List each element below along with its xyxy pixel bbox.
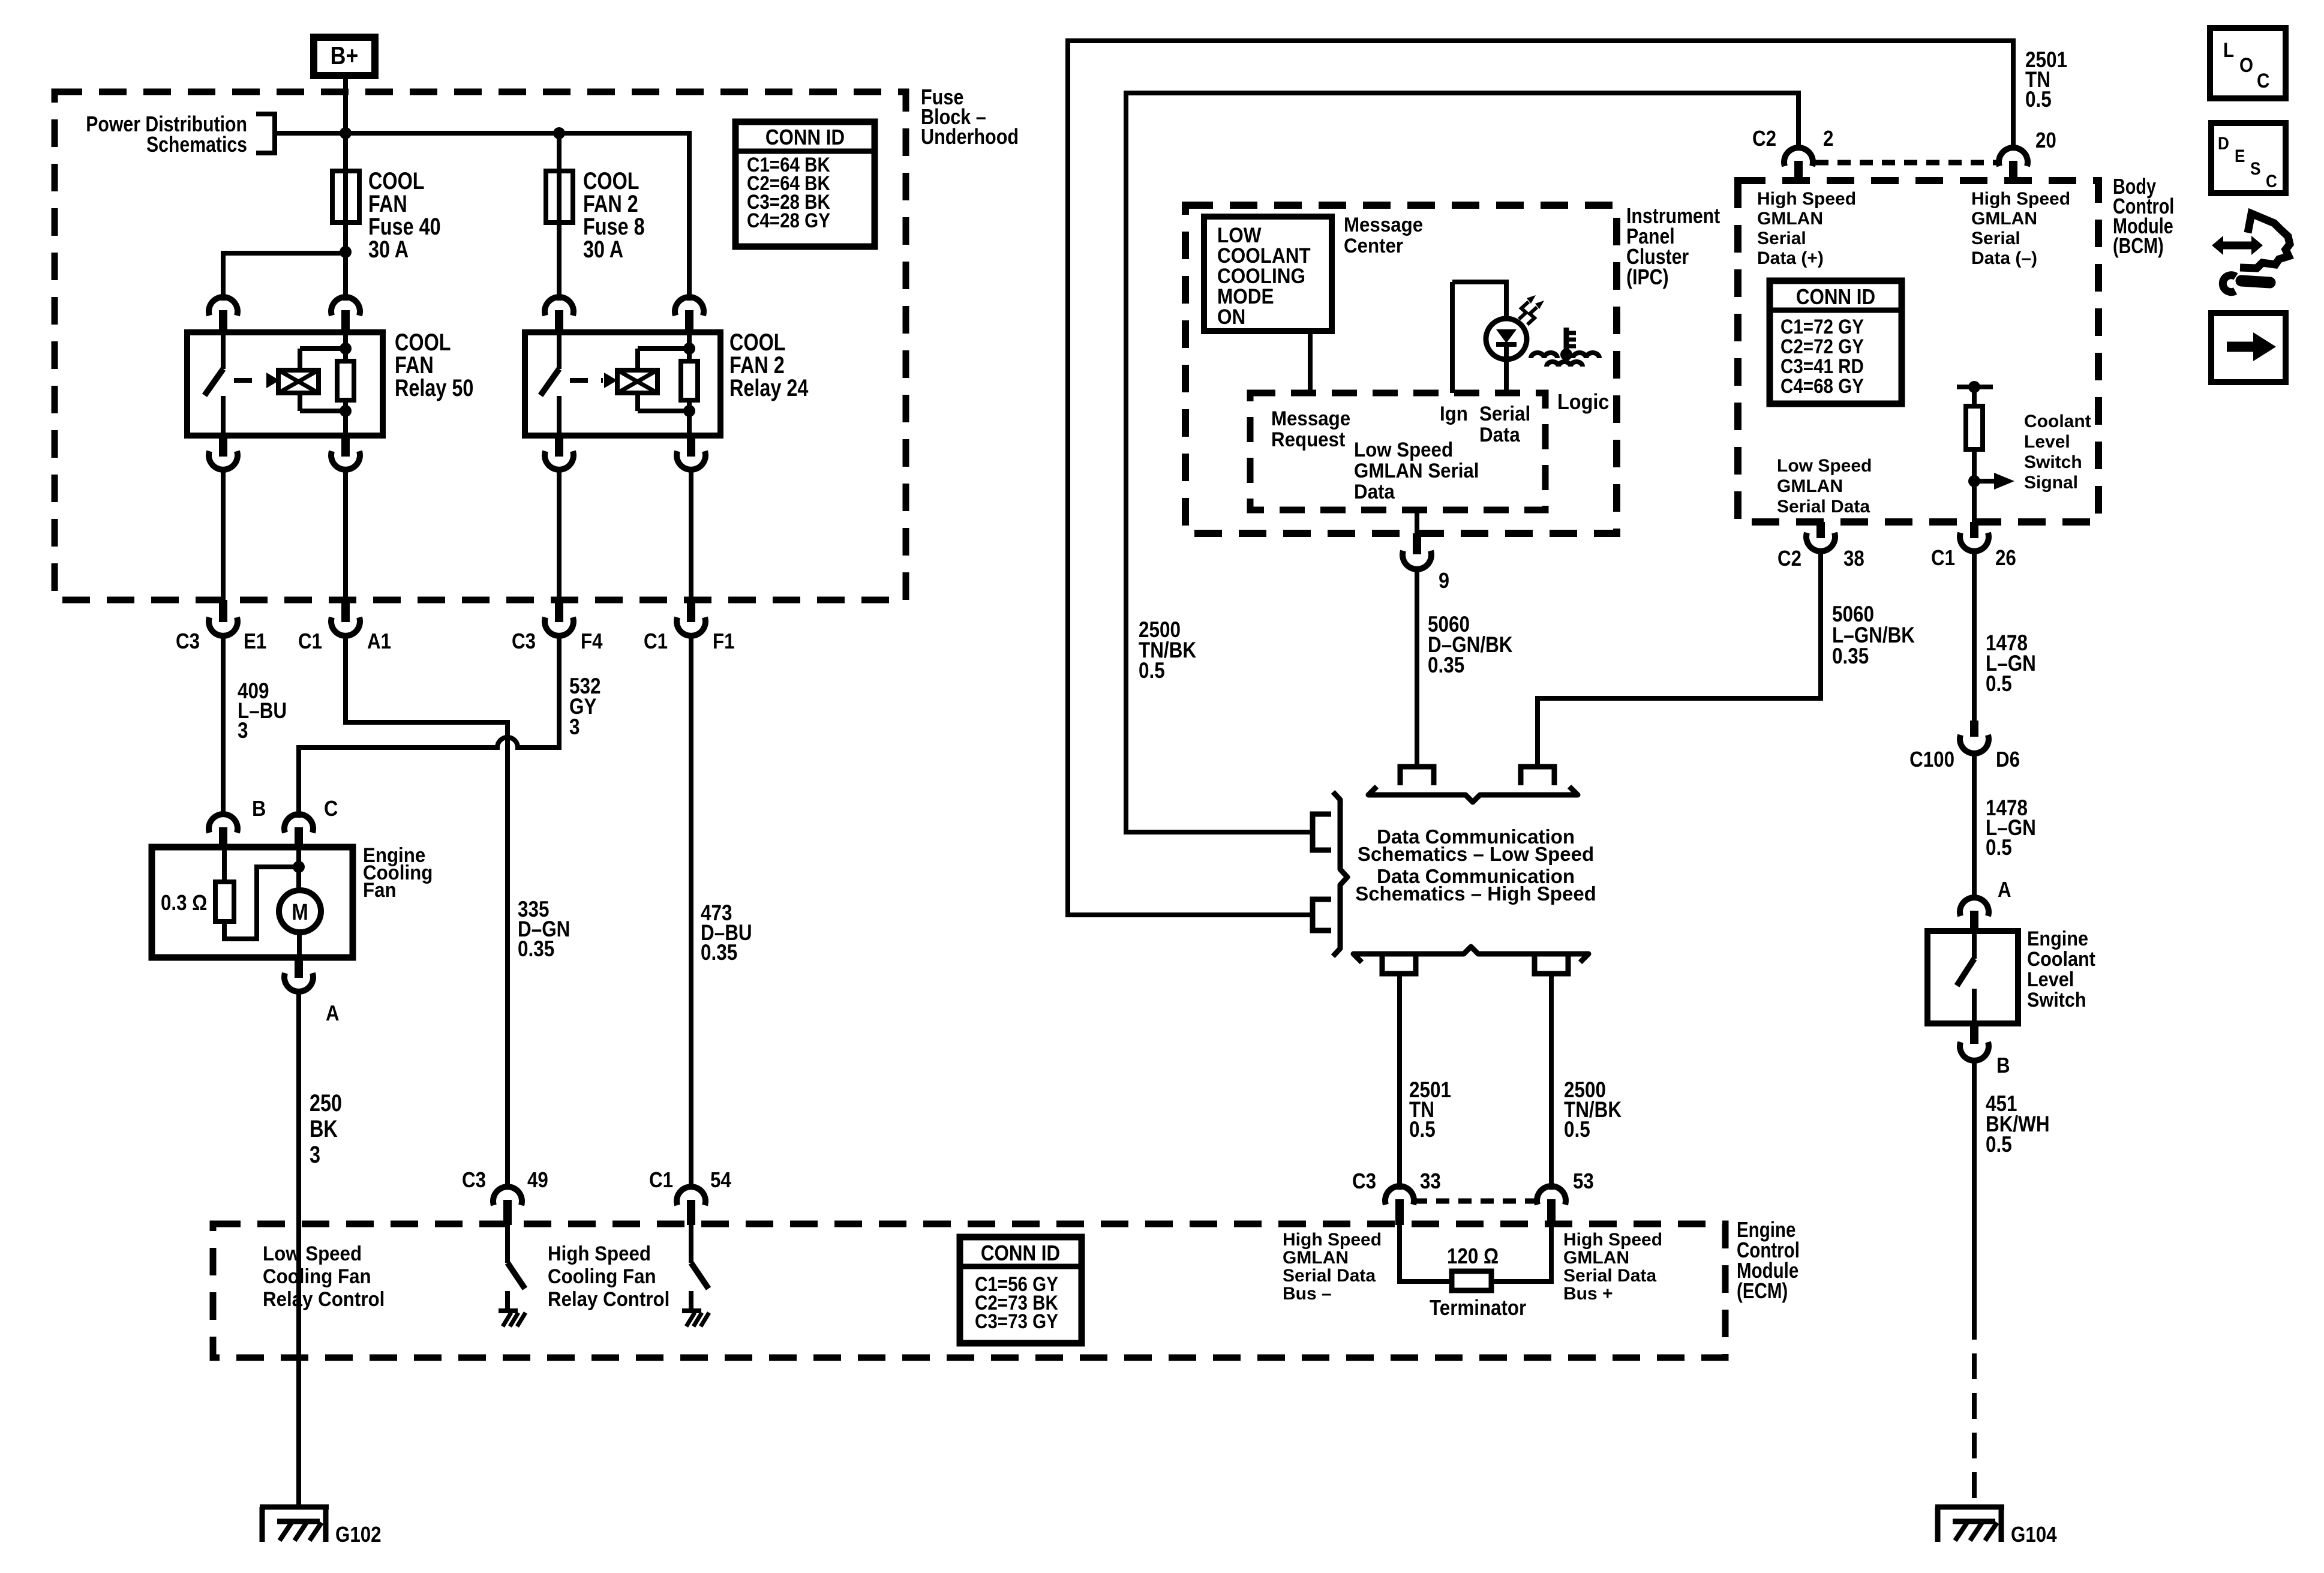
svg-text:C3=73 GY: C3=73 GY — [975, 1310, 1058, 1332]
connector BCM C1 26 — [1931, 522, 2016, 571]
svg-text:0.35: 0.35 — [701, 941, 737, 965]
svg-text:F4: F4 — [581, 629, 603, 654]
svg-text:C3: C3 — [462, 1168, 486, 1193]
brace data communication top — [1368, 786, 1578, 802]
connector relay24 pin bottom-left F4 side — [545, 436, 574, 470]
switch high speed cooling fan relay control — [548, 1225, 709, 1326]
connector BCM C2 pin 2 — [1752, 127, 1833, 182]
svg-text:G102: G102 — [335, 1523, 382, 1547]
svg-text:C1: C1 — [1931, 546, 1955, 571]
label Power Distribution Schematics — [86, 113, 247, 157]
connector fan pin B — [209, 797, 266, 848]
svg-text:Data: Data — [1479, 423, 1521, 446]
logic dashed box IPC — [1250, 390, 1609, 510]
svg-text:High Speed: High Speed — [548, 1242, 651, 1265]
connector IPC pin 9 — [1403, 510, 1449, 593]
relay24 coil — [617, 349, 689, 411]
wire 2500 TN/BK to ECM 53 — [1551, 974, 1622, 1190]
svg-text:38: 38 — [1843, 547, 1864, 571]
svg-text:D: D — [2218, 133, 2229, 153]
svg-text:High Speed: High Speed — [1563, 1230, 1662, 1250]
instrument panel cluster IPC dashed box — [1185, 205, 1617, 533]
bracket to Power Distribution Schematics — [256, 114, 275, 153]
svg-text:Coolant: Coolant — [2027, 948, 2095, 971]
icon service wrench with arrows — [2212, 214, 2290, 292]
svg-text:C1: C1 — [298, 629, 322, 654]
connector relay50 pin bottom-right A1 side — [331, 436, 360, 470]
table CONN ID ECM — [960, 1237, 1082, 1343]
wire message request — [1308, 331, 1313, 393]
svg-text:GMLAN: GMLAN — [1563, 1248, 1629, 1268]
svg-text:Coolant: Coolant — [2024, 412, 2091, 431]
wire 532 GY to fan C with hop — [299, 634, 600, 818]
ground G104 — [1935, 1507, 2057, 1547]
table CONN ID fuse block — [735, 122, 875, 247]
svg-text:3: 3 — [310, 1141, 320, 1168]
wire 2500 TN/BK low speed branch — [1126, 93, 1798, 832]
node bus-fuse40 — [340, 127, 352, 139]
svg-text:B: B — [1996, 1053, 2010, 1078]
svg-text:BK: BK — [310, 1115, 338, 1142]
svg-text:Bus +: Bus + — [1563, 1284, 1613, 1304]
svg-text:30 A: 30 A — [583, 236, 623, 263]
svg-text:0.5: 0.5 — [1986, 672, 2012, 697]
svg-text:C2: C2 — [1752, 127, 1776, 151]
wire B+ down to fuse 40 — [343, 77, 348, 252]
svg-text:33: 33 — [1420, 1169, 1441, 1194]
svg-text:26: 26 — [1995, 546, 2016, 571]
svg-text:Low Speed: Low Speed — [1354, 438, 1453, 461]
icon coolant temperature — [1531, 328, 1599, 367]
node coolant level signal — [1968, 475, 1980, 487]
connector fan pin C — [284, 797, 338, 848]
svg-text:0.5: 0.5 — [1409, 1118, 1436, 1142]
svg-text:Schematics: Schematics — [146, 133, 247, 157]
svg-text:A: A — [326, 1001, 340, 1026]
node relay50 coil top — [340, 343, 352, 355]
connector C100 D6 — [1909, 721, 2020, 772]
connector fan pin A — [284, 957, 340, 1026]
offpage connector low speed left — [1313, 814, 1331, 850]
svg-text:Logic: Logic — [1557, 390, 1609, 414]
wire 2500 TN/BK high speed bus minus loop — [1068, 41, 2067, 915]
connector C1 F1 — [644, 600, 735, 654]
svg-text:30 A: 30 A — [368, 236, 409, 263]
svg-text:GMLAN: GMLAN — [1283, 1248, 1349, 1268]
wire bus corner to relay24 coil pin — [687, 133, 689, 301]
resistor coolant level pull-up BCM — [1957, 387, 1993, 523]
svg-text:Relay Control: Relay Control — [263, 1287, 385, 1311]
svg-text:GMLAN: GMLAN — [1757, 209, 1823, 229]
connector C3 F4 — [512, 600, 603, 654]
label Engine Control Module (ECM) — [1737, 1217, 1800, 1302]
svg-text:20: 20 — [2035, 128, 2056, 153]
svg-text:GMLAN: GMLAN — [1971, 209, 2037, 229]
connector C3 49 — [462, 1168, 548, 1225]
svg-text:Switch: Switch — [2027, 989, 2086, 1011]
svg-text:Schematics – High Speed: Schematics – High Speed — [1355, 882, 1596, 905]
power node B+ — [314, 37, 375, 76]
connector relay50 pin top-left — [209, 297, 238, 334]
svg-text:0.35: 0.35 — [1428, 653, 1464, 678]
svg-text:E1: E1 — [244, 629, 266, 654]
body control module BCM dashed box — [1738, 181, 2098, 522]
svg-text:Level: Level — [2024, 432, 2070, 452]
svg-text:C3: C3 — [1352, 1169, 1376, 1194]
svg-text:Serial Data: Serial Data — [1563, 1266, 1656, 1286]
svg-text:L: L — [2223, 38, 2234, 61]
connector BCM C2 38 — [1777, 522, 1864, 571]
label low speed gmlan serial data BCM — [1777, 456, 1872, 517]
brace data communication bottom — [1353, 947, 1589, 962]
svg-text:Level: Level — [2027, 968, 2074, 991]
svg-text:Engine: Engine — [2027, 927, 2088, 950]
connector relay50 pin bottom-left E1 side — [209, 436, 238, 470]
svg-text:Relay Control: Relay Control — [548, 1287, 669, 1311]
node bus-fuse8 — [553, 127, 565, 139]
svg-text:Serial Data: Serial Data — [1283, 1266, 1376, 1286]
wire 451 BK/WH to G104 — [1974, 1059, 2050, 1507]
svg-text:B: B — [252, 797, 266, 821]
svg-text:O: O — [2239, 53, 2253, 76]
wire relay24 F1 down — [689, 467, 693, 600]
wire bus to fuse 8 — [557, 131, 562, 301]
svg-text:C: C — [324, 797, 338, 821]
resistor relay24 internal — [681, 332, 698, 436]
svg-text:E: E — [2235, 146, 2245, 166]
svg-text:3: 3 — [238, 719, 248, 743]
svg-text:Relay 24: Relay 24 — [729, 374, 809, 401]
LED light arrows — [1519, 295, 1544, 325]
wire 250 BK to G102 — [299, 990, 342, 1507]
node relay24 coil top — [683, 343, 695, 355]
svg-text:Request: Request — [1271, 428, 1345, 451]
svg-text:2: 2 — [1823, 127, 1833, 151]
connector coolant switch pin B — [1960, 1023, 2010, 1078]
svg-text:Schematics – Low Speed: Schematics – Low Speed — [1358, 843, 1594, 865]
wire relay50 E1 down — [221, 467, 226, 600]
svg-text:High Speed: High Speed — [1757, 189, 1856, 209]
wire B+ feed bus — [275, 131, 689, 136]
arrow coolant level switch signal — [1974, 412, 2091, 493]
svg-text:Low Speed: Low Speed — [1777, 456, 1872, 476]
connector relay50 pin top-right — [331, 297, 360, 334]
label Fuse Block - Underhood — [921, 86, 1019, 149]
svg-text:C3: C3 — [512, 629, 536, 654]
relay50 switch — [205, 332, 223, 436]
svg-text:Center: Center — [1344, 234, 1403, 257]
connector relay24 pin top-left — [545, 297, 574, 334]
icon LOC box — [2210, 28, 2286, 98]
svg-text:S: S — [2250, 158, 2260, 178]
svg-text:Switch: Switch — [2024, 452, 2082, 472]
svg-text:C1: C1 — [649, 1168, 673, 1193]
relay K24 COOL FAN 2 Relay 24 box — [525, 329, 809, 436]
svg-text:C2: C2 — [1777, 547, 1801, 571]
svg-text:D6: D6 — [1996, 748, 2020, 772]
svg-text:0.5: 0.5 — [1986, 1133, 2012, 1157]
wire BCM low speed gmlan to offpage — [1538, 549, 1821, 767]
svg-text:Data (–): Data (–) — [1971, 248, 2037, 268]
svg-text:54: 54 — [710, 1168, 731, 1193]
svg-text:F1: F1 — [713, 629, 735, 654]
svg-text:G104: G104 — [2011, 1523, 2057, 1547]
wire 1478 L-GN lower — [1974, 752, 2036, 900]
svg-text:0.5: 0.5 — [1139, 659, 1165, 683]
icon arrow box — [2211, 313, 2286, 382]
node fuse40 output — [340, 246, 352, 258]
fuse block underhood dashed box — [55, 92, 906, 600]
svg-text:Signal: Signal — [2024, 473, 2078, 493]
svg-text:Serial: Serial — [1971, 229, 2020, 248]
svg-text:CONN ID: CONN ID — [765, 125, 845, 150]
wire 5060 D-GN/BK — [1417, 568, 1513, 766]
offpage connector high speed serial data top — [1521, 767, 1554, 785]
ground G102 — [260, 1507, 382, 1547]
wire 5060 L-GN/BK — [1821, 550, 1915, 698]
svg-text:C4=28 GY: C4=28 GY — [747, 209, 830, 232]
svg-text:Relay 50: Relay 50 — [395, 374, 473, 401]
wire 1478 L-GN upper — [1974, 550, 2036, 721]
relay24 actuating link dashed — [570, 373, 617, 388]
wire 2501 TN to ECM 33 — [1400, 974, 1451, 1190]
svg-text:250: 250 — [310, 1089, 342, 1116]
connector coolant switch pin A — [1960, 878, 2011, 932]
label data communication schematics — [1355, 825, 1596, 905]
offpage connector high speed bus plus bottom — [1535, 955, 1568, 974]
table CONN ID BCM — [1770, 281, 1902, 404]
engine coolant level switch box — [1927, 927, 2095, 1023]
offpage connector low speed serial data top — [1400, 767, 1434, 785]
connector relay24 pin top-right — [675, 297, 704, 334]
svg-text:Serial Data: Serial Data — [1777, 497, 1870, 517]
connector 53 — [1537, 1169, 1594, 1225]
brace data communication left — [1333, 792, 1347, 956]
svg-text:0.5: 0.5 — [1564, 1118, 1590, 1142]
svg-text:Data (+): Data (+) — [1757, 248, 1824, 268]
offpage connector high speed bus minus bottom — [1382, 955, 1416, 974]
dashed link pins 33-53 — [1414, 1199, 1538, 1204]
svg-text:9: 9 — [1439, 569, 1449, 593]
svg-text:Serial: Serial — [1479, 402, 1530, 425]
svg-text:High Speed: High Speed — [1283, 1230, 1382, 1250]
svg-text:C1: C1 — [644, 629, 668, 654]
node relay50 coil bottom — [340, 405, 352, 417]
connector C3 E1 — [176, 600, 266, 654]
wire 409 L-BU to fan B — [223, 634, 287, 814]
svg-text:ON: ON — [1217, 306, 1245, 329]
svg-text:Data: Data — [1354, 480, 1395, 503]
svg-text:GMLAN Serial: GMLAN Serial — [1354, 459, 1479, 482]
svg-text:(ECM): (ECM) — [1737, 1278, 1788, 1302]
svg-text:C3: C3 — [176, 629, 200, 654]
label high speed gmlan serial data bus minus — [1283, 1230, 1382, 1304]
connector BCM pin 20 — [1999, 128, 2056, 182]
label Body Control Module (BCM) — [2113, 174, 2174, 258]
resistor relay50 internal — [337, 332, 354, 436]
fuse Fuse 8 COOL FAN 2 30A — [546, 167, 645, 263]
svg-text:Low Speed: Low Speed — [263, 1242, 362, 1265]
node fan internal — [293, 861, 305, 873]
svg-text:C: C — [2266, 171, 2277, 191]
svg-text:(IPC): (IPC) — [1626, 266, 1669, 290]
svg-text:Cooling Fan: Cooling Fan — [263, 1265, 371, 1288]
svg-text:0.5: 0.5 — [1986, 836, 2012, 860]
svg-text:GMLAN: GMLAN — [1777, 476, 1843, 496]
svg-text:Ign: Ign — [1440, 402, 1468, 425]
wire relay24 F4 down — [557, 467, 562, 600]
relay50 coil — [278, 349, 346, 411]
svg-text:Terminator: Terminator — [1430, 1296, 1526, 1320]
svg-text:CONN ID: CONN ID — [1796, 285, 1875, 310]
wire 473 D-BU relay24 control — [691, 634, 752, 1190]
switch low speed cooling fan relay control — [263, 1225, 526, 1326]
svg-text:3: 3 — [569, 715, 580, 740]
svg-text:Bus –: Bus – — [1283, 1284, 1332, 1304]
svg-text:0.3 Ω: 0.3 Ω — [161, 891, 207, 915]
svg-text:(BCM): (BCM) — [2113, 233, 2164, 258]
connector relay24 pin bottom-right F1 side — [677, 436, 705, 470]
label high speed gmlan serial data plus — [1757, 189, 1856, 268]
icon DESC box — [2211, 123, 2286, 193]
wire fuse40 to relay50 pins — [223, 251, 346, 301]
fuse Fuse 40 COOL FAN 30A — [332, 167, 441, 263]
wire 335 D-GN relay50 control — [346, 634, 570, 1190]
connector C1 54 — [649, 1168, 731, 1225]
wire relay50 A1 down — [343, 467, 348, 600]
label high speed gmlan serial data minus — [1971, 189, 2070, 268]
svg-text:C100: C100 — [1909, 748, 1954, 772]
svg-text:Cooling Fan: Cooling Fan — [548, 1265, 656, 1288]
svg-text:0.35: 0.35 — [1832, 644, 1869, 669]
svg-text:CONN ID: CONN ID — [981, 1241, 1060, 1266]
svg-text:A: A — [1998, 878, 2011, 902]
svg-text:A1: A1 — [367, 629, 391, 654]
relay24 switch — [541, 332, 559, 436]
resistor 0.3 ohm fan — [161, 847, 294, 939]
engine cooling fan box — [152, 843, 433, 957]
label Instrument Panel Cluster (IPC) — [1626, 205, 1720, 290]
svg-text:C: C — [2257, 69, 2269, 92]
svg-text:M: M — [292, 899, 308, 925]
svg-text:Message: Message — [1271, 407, 1350, 430]
relay50 actuating link dashed — [234, 373, 280, 388]
connector C1 A1 — [298, 600, 391, 654]
offpage connector high speed left — [1313, 899, 1331, 930]
svg-text:Underhood: Underhood — [921, 125, 1019, 149]
svg-text:C4=68 GY: C4=68 GY — [1780, 374, 1864, 397]
svg-text:120 Ω: 120 Ω — [1447, 1244, 1499, 1269]
indicator LED IPC — [1452, 280, 1527, 393]
svg-text:High Speed: High Speed — [1971, 189, 2070, 209]
connector C3 33 — [1352, 1169, 1441, 1225]
relay K50 COOL FAN Relay 50 box — [187, 329, 473, 436]
resistor 120 ohm terminator — [1400, 1225, 1551, 1320]
engine control module ECM dashed box — [213, 1224, 1725, 1358]
svg-text:Serial: Serial — [1757, 229, 1806, 248]
dashed link pins 2-20 — [1815, 160, 1998, 166]
svg-text:B+: B+ — [331, 42, 359, 70]
svg-text:0.35: 0.35 — [518, 937, 554, 962]
node coolant level top — [1968, 381, 1980, 393]
svg-text:0.5: 0.5 — [2025, 88, 2052, 112]
node relay24 coil bottom — [683, 405, 695, 417]
svg-text:53: 53 — [1573, 1169, 1594, 1194]
svg-text:49: 49 — [527, 1168, 548, 1193]
message center box LOW COOLANT COOLING MODE ON — [1204, 213, 1423, 331]
svg-text:Fan: Fan — [363, 878, 397, 902]
motor M fan — [279, 847, 321, 957]
label high speed gmlan serial data bus plus — [1563, 1230, 1662, 1304]
svg-text:Message: Message — [1344, 213, 1423, 236]
